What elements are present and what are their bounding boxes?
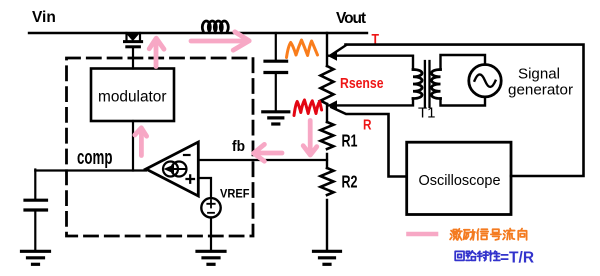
svg-text:R1: R1 bbox=[342, 131, 358, 150]
wire transformer secondary to signal generator bbox=[441, 55, 486, 106]
wire transformer primary top bbox=[329, 56, 413, 70]
svg-text:generator: generator bbox=[508, 81, 573, 98]
svg-text:T1: T1 bbox=[418, 105, 436, 122]
probe arrow at Rsense top bbox=[327, 51, 337, 61]
legend text orange (stimulus signal flow) bbox=[450, 229, 527, 240]
wire fb: op-amp inverting input to R1/R2 divider bbox=[198, 159, 327, 161]
svg-text:fb: fb bbox=[232, 139, 245, 155]
capacitor C1 (output cap) bbox=[265, 33, 287, 111]
transistor Q1 (high-side switch MOSFET) bbox=[125, 33, 142, 69]
resistor R1 bbox=[321, 122, 334, 149]
pink arrow: switch node up bbox=[149, 38, 164, 66]
legend pink line bbox=[409, 232, 437, 237]
resistor Rsense bbox=[321, 66, 334, 104]
inductor L1 bbox=[202, 21, 228, 31]
probe arrow at Rsense bottom bbox=[327, 100, 337, 110]
svg-text:Vin: Vin bbox=[32, 9, 56, 26]
resistor R2 bbox=[321, 168, 334, 195]
wire output branch: Vout rail down through Rsense, R1, R2 bbox=[326, 33, 328, 251]
legend text blue (loop characteristic = T/R) bbox=[455, 250, 534, 267]
pink arrow: inductor flow right bbox=[191, 32, 249, 50]
transformer T1 bbox=[413, 61, 441, 107]
wire T: Rsense top to oscilloscope right input bbox=[346, 45, 584, 176]
pink arrow: comp to modulator up bbox=[135, 128, 147, 156]
ground (output cap) bbox=[263, 112, 289, 124]
svg-text:R2: R2 bbox=[342, 172, 358, 191]
ground (VREF) bbox=[197, 251, 225, 264]
svg-text:Rsense: Rsense bbox=[340, 75, 384, 92]
pink arrow: fb into error amp left bbox=[254, 144, 282, 161]
wire comp rail bbox=[35, 169, 146, 171]
svg-text:=T/R: =T/R bbox=[500, 250, 534, 267]
svg-text:Vout: Vout bbox=[336, 10, 366, 27]
pink arrow: injection down to fb bbox=[303, 121, 317, 156]
wire modulator to comp node bbox=[132, 121, 134, 171]
oscilloscope box bbox=[407, 142, 511, 214]
op-amp U1 (error amplifier) bbox=[146, 142, 198, 196]
wire transformer primary bottom bbox=[329, 99, 413, 106]
ground (R2) bbox=[314, 251, 341, 264]
voltage source VREF bbox=[201, 198, 220, 251]
svg-text:VREF: VREF bbox=[220, 189, 250, 201]
modulator U2 box bbox=[91, 69, 174, 122]
svg-text:Signal: Signal bbox=[518, 65, 560, 82]
wire R: Rsense bottom to oscilloscope left input bbox=[332, 107, 407, 176]
signal generator source bbox=[469, 65, 501, 97]
capacitor C2 (comp) bbox=[25, 170, 47, 252]
dashed control-loop box bbox=[67, 58, 254, 236]
ground (comp cap) bbox=[22, 251, 50, 264]
svg-text:comp: comp bbox=[77, 146, 113, 168]
orange output ripple waveform bbox=[287, 40, 318, 58]
svg-text:R: R bbox=[363, 117, 372, 134]
svg-text:Oscilloscope: Oscilloscope bbox=[419, 172, 501, 189]
wire op-amp noninverting input to VREF bbox=[198, 178, 211, 198]
red injected waveform bbox=[294, 100, 322, 116]
wire top rail Vin to Vout bbox=[29, 32, 367, 34]
svg-text:modulator: modulator bbox=[98, 89, 167, 106]
